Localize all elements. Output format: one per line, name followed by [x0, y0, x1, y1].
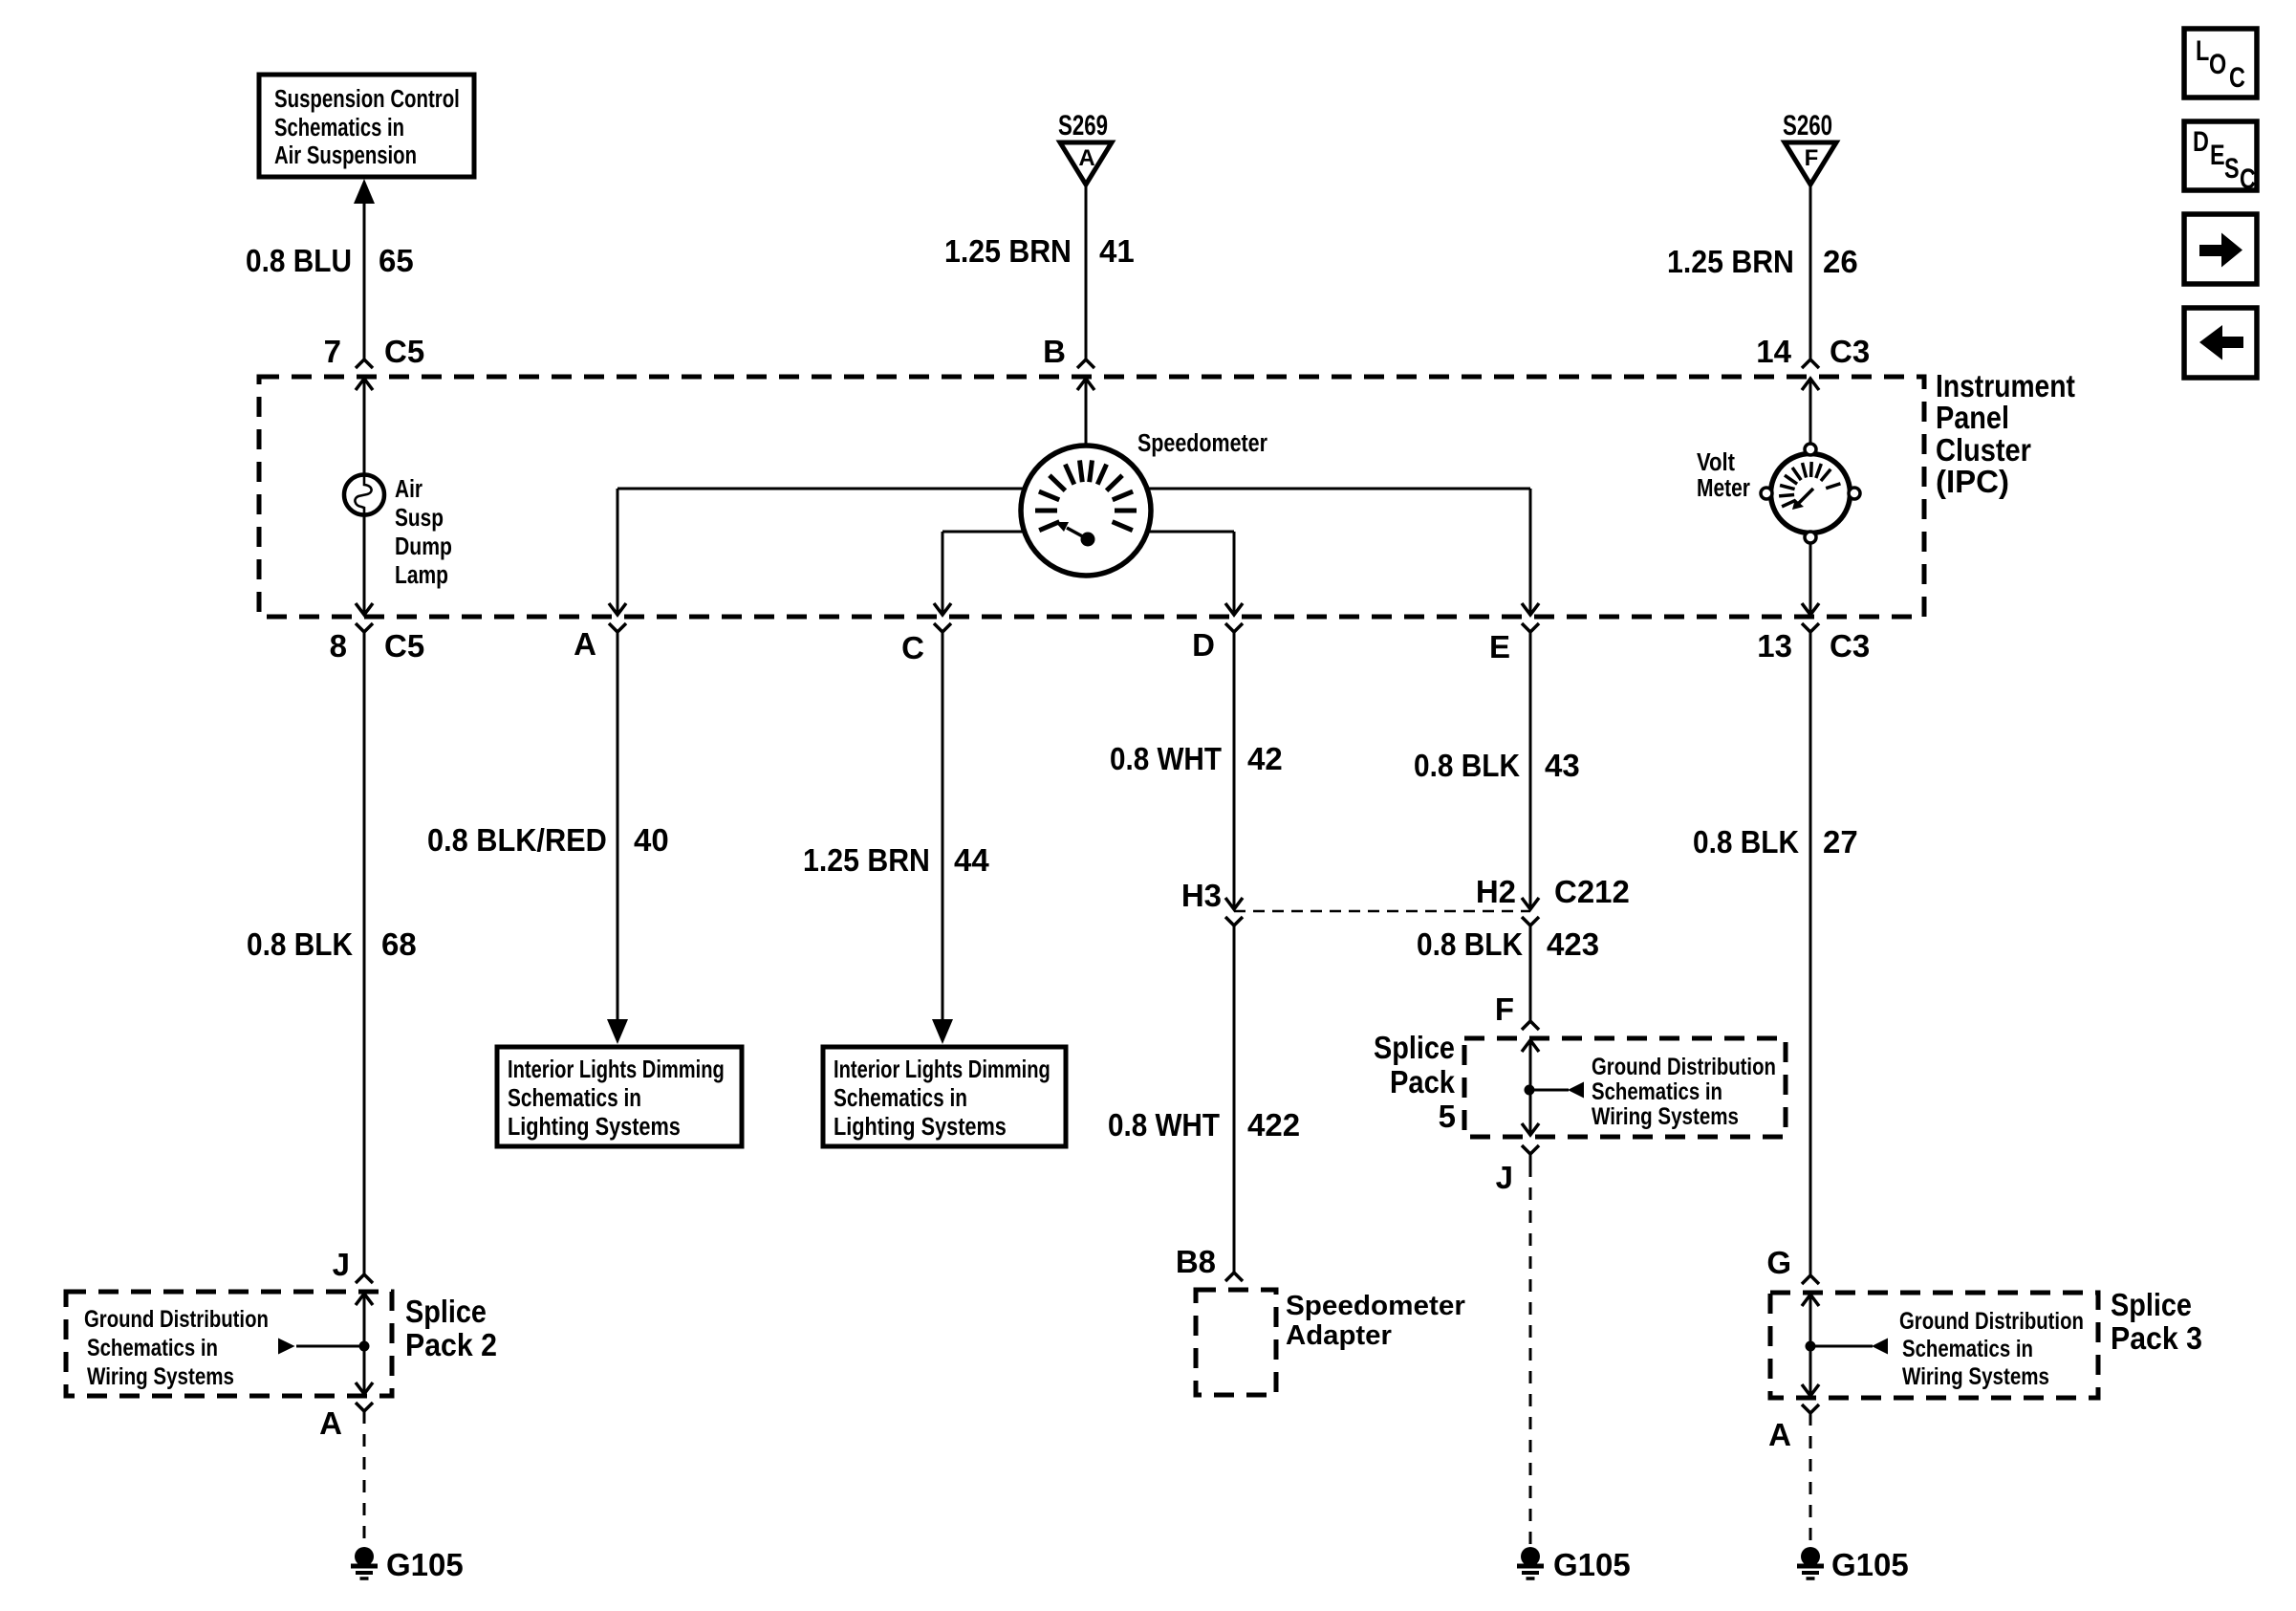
svg-text:Ground Distribution: Ground Distribution [1592, 1053, 1776, 1080]
svg-text:G105: G105 [1831, 1547, 1909, 1582]
wire 26 (1.25 BRN) [1809, 185, 1812, 359]
svg-text:65: 65 [379, 243, 414, 278]
splice symbol S260 label [1783, 109, 1832, 142]
ground G105 (middle) [1517, 1547, 1544, 1578]
svg-text:Air Suspension: Air Suspension [274, 142, 417, 169]
svg-text:41: 41 [1099, 233, 1135, 269]
dashed wire splice pack 3 to ground [1809, 1413, 1812, 1546]
wire 27 (0.8 BLK) [1809, 632, 1812, 1275]
pin B8 label [1176, 1244, 1216, 1279]
connector chevron pin J [356, 1274, 373, 1283]
svg-text:C3: C3 [1830, 628, 1870, 664]
svg-text:A: A [1768, 1417, 1791, 1452]
wire 423 (0.8 BLK) [1529, 925, 1532, 1021]
splice pack 3 dashed box [1770, 1293, 2098, 1398]
svg-text:1.25 BRN: 1.25 BRN [1667, 244, 1794, 280]
connector chevron pin J (splice pack 5) [1522, 1145, 1539, 1165]
svg-text:L: L [2196, 34, 2209, 66]
svg-text:C: C [2240, 163, 2256, 194]
connector chevron pin A (splice pack 2) [356, 1403, 373, 1411]
wire speedometer to pin D (lower-right) [1148, 532, 1243, 615]
svg-text:Lighting Systems: Lighting Systems [508, 1113, 681, 1141]
connector chevron pin B8 [1225, 1273, 1243, 1281]
IPC title Instrument Panel Cluster (IPC) [1936, 368, 2075, 499]
connector chevron pin 13 C3 [1802, 623, 1819, 636]
svg-text:Wiring Systems: Wiring Systems [1592, 1102, 1739, 1129]
svg-text:Schematics in: Schematics in [1902, 1335, 2033, 1362]
svg-text:26: 26 [1823, 244, 1858, 279]
pin A label (IPC) [574, 626, 596, 662]
svg-text:422: 422 [1247, 1107, 1300, 1143]
pin H3 label [1181, 878, 1222, 913]
svg-text:F: F [1495, 991, 1514, 1027]
label 0.8 WHT 42 [1110, 741, 1283, 776]
wire IPC top to volt meter [1802, 379, 1819, 444]
svg-text:B8: B8 [1176, 1244, 1216, 1279]
pin E label (IPC) [1489, 629, 1510, 664]
wire speedometer to pin C (lower-left) [934, 532, 1024, 615]
label Splice Pack 2 [405, 1294, 497, 1362]
svg-text:F: F [1805, 145, 1819, 171]
splice pack 2 wire with arrows and junction dot [278, 1294, 373, 1394]
connector chevron pin B [1077, 359, 1094, 368]
connector chevron pin C (IPC) [934, 623, 951, 636]
pin C label (IPC) [901, 630, 924, 665]
svg-text:J: J [333, 1247, 350, 1282]
splice pack 2 dashed box [66, 1292, 392, 1396]
svg-text:7: 7 [324, 334, 341, 369]
pin D label (IPC) [1192, 627, 1215, 663]
svg-text:Volt: Volt [1697, 448, 1735, 476]
svg-text:Air: Air [395, 475, 422, 503]
svg-text:Wiring Systems: Wiring Systems [1902, 1362, 2049, 1389]
label G105 (middle) [1553, 1547, 1631, 1582]
svg-text:Lamp: Lamp [395, 562, 448, 590]
svg-text:13: 13 [1757, 628, 1792, 664]
svg-text:27: 27 [1823, 824, 1858, 860]
connector chevron pin A (splice pack 3) [1802, 1404, 1819, 1413]
label 1.25 BRN 41 [944, 233, 1135, 270]
svg-text:Pack: Pack [1390, 1064, 1456, 1099]
connector chevron pin H2 [1522, 917, 1539, 925]
splice pack 5 wire with arrows and junction dot [1522, 1040, 1584, 1135]
lamp: Air Susp Dump Lamp [344, 475, 384, 515]
svg-text:Wiring Systems: Wiring Systems [87, 1362, 234, 1389]
splice symbol S269 label [1058, 109, 1108, 142]
pin J label (splice pack 5) [1496, 1160, 1513, 1195]
svg-text:Lighting Systems: Lighting Systems [834, 1113, 1007, 1141]
connector triangle A (S269) [1060, 142, 1112, 185]
svg-text:Interior Lights Dimming: Interior Lights Dimming [834, 1056, 1051, 1083]
svg-text:68: 68 [381, 926, 417, 962]
svg-text:G: G [1766, 1245, 1791, 1280]
label 0.8 BLK 43 [1414, 748, 1580, 783]
label Air Susp Dump Lamp [395, 475, 452, 590]
legend box LOC [2184, 29, 2257, 98]
pin 7 connector C5 labels [324, 334, 425, 369]
label Volt Meter [1697, 448, 1750, 502]
svg-text:Adapter: Adapter [1286, 1320, 1392, 1351]
pin J label [333, 1247, 350, 1282]
connector chevron pin A (IPC) [609, 623, 626, 636]
svg-text:A: A [319, 1405, 342, 1441]
svg-text:Schematics in: Schematics in [87, 1334, 218, 1361]
pin 13 connector C3 labels [1757, 628, 1870, 664]
svg-text:Splice: Splice [405, 1294, 487, 1329]
connector chevron pin E (IPC) [1522, 623, 1539, 636]
IPC dashed box (Instrument Panel Cluster) [259, 377, 1924, 617]
svg-text:5: 5 [1439, 1099, 1456, 1134]
wire 44 (1.25 BRN) with arrow into box [932, 632, 953, 1044]
svg-text:G105: G105 [386, 1547, 464, 1582]
svg-text:14: 14 [1756, 334, 1791, 369]
svg-text:Speedometer: Speedometer [1137, 429, 1267, 457]
svg-text:(IPC): (IPC) [1936, 464, 2009, 499]
svg-text:Meter: Meter [1697, 475, 1750, 503]
label 0.8 BLU 65 [246, 243, 414, 278]
wire volt meter to IPC bottom [1802, 543, 1819, 615]
svg-text:B: B [1043, 334, 1066, 369]
svg-text:Susp: Susp [395, 504, 444, 532]
label 1.25 BRN 26 [1667, 244, 1858, 280]
dashed wire splice pack 5 to ground [1529, 1165, 1532, 1544]
connector chevron pin 7 C5 [356, 359, 373, 368]
wire speedometer to pin E (upper-right) [1146, 489, 1539, 615]
legend box right arrow [2184, 214, 2257, 284]
svg-text:Splice: Splice [1374, 1030, 1455, 1065]
connector chevron pin G [1802, 1275, 1819, 1284]
svg-text:Pack 3: Pack 3 [2111, 1320, 2202, 1357]
inline connector C212 dashed line [1234, 910, 1530, 913]
svg-text:0.8 BLK: 0.8 BLK [247, 927, 353, 963]
pin F label [1495, 991, 1514, 1027]
reference box: Suspension Control Schematics in Air Suspension [259, 75, 474, 177]
svg-text:0.8 BLK: 0.8 BLK [1693, 825, 1799, 860]
pin 8 connector C5 labels [330, 628, 425, 664]
wire 422 (0.8 WHT) [1233, 925, 1236, 1274]
pin 14 connector C3 labels [1756, 334, 1870, 369]
connector chevron pin D (IPC) [1225, 623, 1243, 636]
connector chevron pin 8 C5 [356, 623, 373, 636]
wire 40 (0.8 BLK/RED) with arrow into box [607, 632, 628, 1044]
connector chevron pin F [1522, 1021, 1539, 1030]
svg-text:Speedometer: Speedometer [1286, 1290, 1465, 1321]
wire from IPC top edge to Air Susp Dump Lamp [356, 379, 373, 475]
label G105 (left) [386, 1547, 464, 1582]
svg-text:44: 44 [954, 842, 989, 878]
svg-text:C212: C212 [1554, 874, 1630, 909]
dashed wire splice pack 2 to ground [363, 1411, 366, 1546]
svg-text:Schematics in: Schematics in [508, 1084, 641, 1112]
pin G label [1766, 1245, 1791, 1280]
svg-text:Panel: Panel [1936, 400, 2009, 435]
svg-text:43: 43 [1545, 748, 1580, 783]
connector triangle F (S260) [1785, 142, 1836, 185]
svg-text:Schematics in: Schematics in [1592, 1078, 1722, 1105]
svg-text:0.8 BLK: 0.8 BLK [1414, 749, 1520, 784]
svg-text:Pack 2: Pack 2 [405, 1327, 497, 1363]
pin A label (splice pack 3) [1768, 1417, 1791, 1452]
label 0.8 BLK 27 [1693, 824, 1858, 860]
gauge: Speedometer [1021, 446, 1151, 576]
svg-text:S: S [2224, 152, 2240, 184]
svg-text:C5: C5 [384, 334, 424, 369]
svg-text:A: A [1078, 145, 1094, 171]
svg-text:Schematics in: Schematics in [834, 1084, 967, 1112]
svg-text:Ground Distribution: Ground Distribution [1899, 1307, 2084, 1335]
legend box DESC [2184, 121, 2257, 195]
svg-text:H2: H2 [1476, 874, 1516, 909]
component box: Speedometer Adapter (dashed) [1196, 1290, 1276, 1395]
svg-text:Instrument: Instrument [1936, 368, 2075, 404]
svg-text:E: E [2210, 139, 2225, 170]
text Ground Distribution Schematics in Wiring Systems (splice pack 2) [84, 1305, 269, 1390]
svg-text:Dump: Dump [395, 533, 452, 561]
wire speedometer to pin A (upper-left) [609, 489, 1026, 615]
wire 43 (0.8 BLK) [1522, 632, 1539, 909]
svg-text:D: D [1192, 627, 1215, 663]
wire 41 (1.25 BRN) [1085, 185, 1088, 359]
label Speedometer Adapter [1286, 1290, 1465, 1351]
svg-text:C3: C3 [1830, 334, 1870, 369]
svg-text:0.8 WHT: 0.8 WHT [1108, 1108, 1220, 1143]
connector chevron pin H3 [1225, 917, 1243, 925]
svg-text:1.25 BRN: 1.25 BRN [944, 233, 1072, 270]
svg-text:G105: G105 [1553, 1547, 1631, 1582]
connector chevron pin 14 C3 [1802, 359, 1819, 368]
svg-text:423: 423 [1547, 926, 1599, 962]
svg-text:0.8 BLK/RED: 0.8 BLK/RED [427, 822, 607, 858]
svg-text:Interior Lights Dimming: Interior Lights Dimming [508, 1056, 725, 1083]
label 1.25 BRN 44 [803, 842, 989, 879]
svg-text:A: A [574, 626, 596, 662]
svg-text:42: 42 [1247, 741, 1283, 776]
svg-text:Splice: Splice [2111, 1287, 2192, 1322]
legend box left arrow [2184, 308, 2257, 378]
wire 42 (0.8 WHT) [1225, 632, 1243, 909]
svg-text:Ground Distribution: Ground Distribution [84, 1305, 269, 1333]
label Speedometer [1137, 429, 1267, 457]
svg-text:0.8 BLK: 0.8 BLK [1417, 927, 1523, 963]
pin H2 connector C212 labels [1476, 874, 1630, 909]
svg-text:O: O [2209, 48, 2226, 79]
text Ground Distribution Schematics in Wiring Systems (splice pack 5) [1592, 1053, 1776, 1130]
splice pack 3 wire with arrows and junction dot [1802, 1295, 1888, 1396]
svg-text:C: C [2229, 61, 2245, 93]
svg-text:40: 40 [634, 822, 669, 858]
ground G105 (left) [351, 1547, 378, 1578]
label Splice Pack 3 [2111, 1287, 2202, 1356]
ground G105 (right) [1797, 1547, 1824, 1578]
svg-text:S260: S260 [1783, 109, 1832, 142]
splice pack 5 dashed box [1464, 1038, 1786, 1137]
pin A label (splice pack 2) [319, 1405, 342, 1441]
gauge: Volt Meter [1761, 444, 1860, 543]
label Splice Pack 5 [1374, 1030, 1456, 1134]
svg-text:8: 8 [330, 628, 347, 664]
svg-text:0.8 BLU: 0.8 BLU [246, 244, 352, 279]
svg-text:H3: H3 [1181, 878, 1222, 913]
svg-text:1.25 BRN: 1.25 BRN [803, 842, 930, 879]
svg-text:E: E [1489, 629, 1510, 664]
wire 68 (0.8 BLK) [363, 632, 366, 1274]
label 0.8 BLK/RED 40 [427, 822, 669, 858]
text Ground Distribution Schematics in Wiring Systems (splice pack 3) [1899, 1307, 2084, 1390]
wire lamp to IPC bottom with arrow [356, 514, 373, 615]
svg-text:Cluster: Cluster [1936, 432, 2031, 468]
label G105 (right) [1831, 1547, 1909, 1582]
label 0.8 WHT 422 [1108, 1107, 1300, 1143]
reference box: Interior Lights Dimming Schematics in Lighting Systems (left) [497, 1047, 742, 1146]
label 0.8 BLK 423 [1417, 926, 1599, 962]
wire 65 (0.8 BLU) with arrow into box [354, 179, 375, 359]
svg-text:D: D [2193, 125, 2209, 157]
wire IPC top to speedometer [1077, 379, 1094, 447]
label 0.8 BLK 68 [247, 926, 417, 962]
reference box: Interior Lights Dimming Schematics in Lighting Systems (right) [823, 1047, 1066, 1146]
svg-text:Suspension Control: Suspension Control [274, 85, 460, 113]
svg-text:C5: C5 [384, 628, 424, 664]
svg-text:0.8 WHT: 0.8 WHT [1110, 742, 1222, 777]
pin B label [1043, 334, 1066, 369]
svg-text:C: C [901, 630, 924, 665]
svg-text:J: J [1496, 1160, 1513, 1195]
svg-text:Schematics in: Schematics in [274, 114, 404, 142]
svg-text:S269: S269 [1058, 109, 1108, 142]
